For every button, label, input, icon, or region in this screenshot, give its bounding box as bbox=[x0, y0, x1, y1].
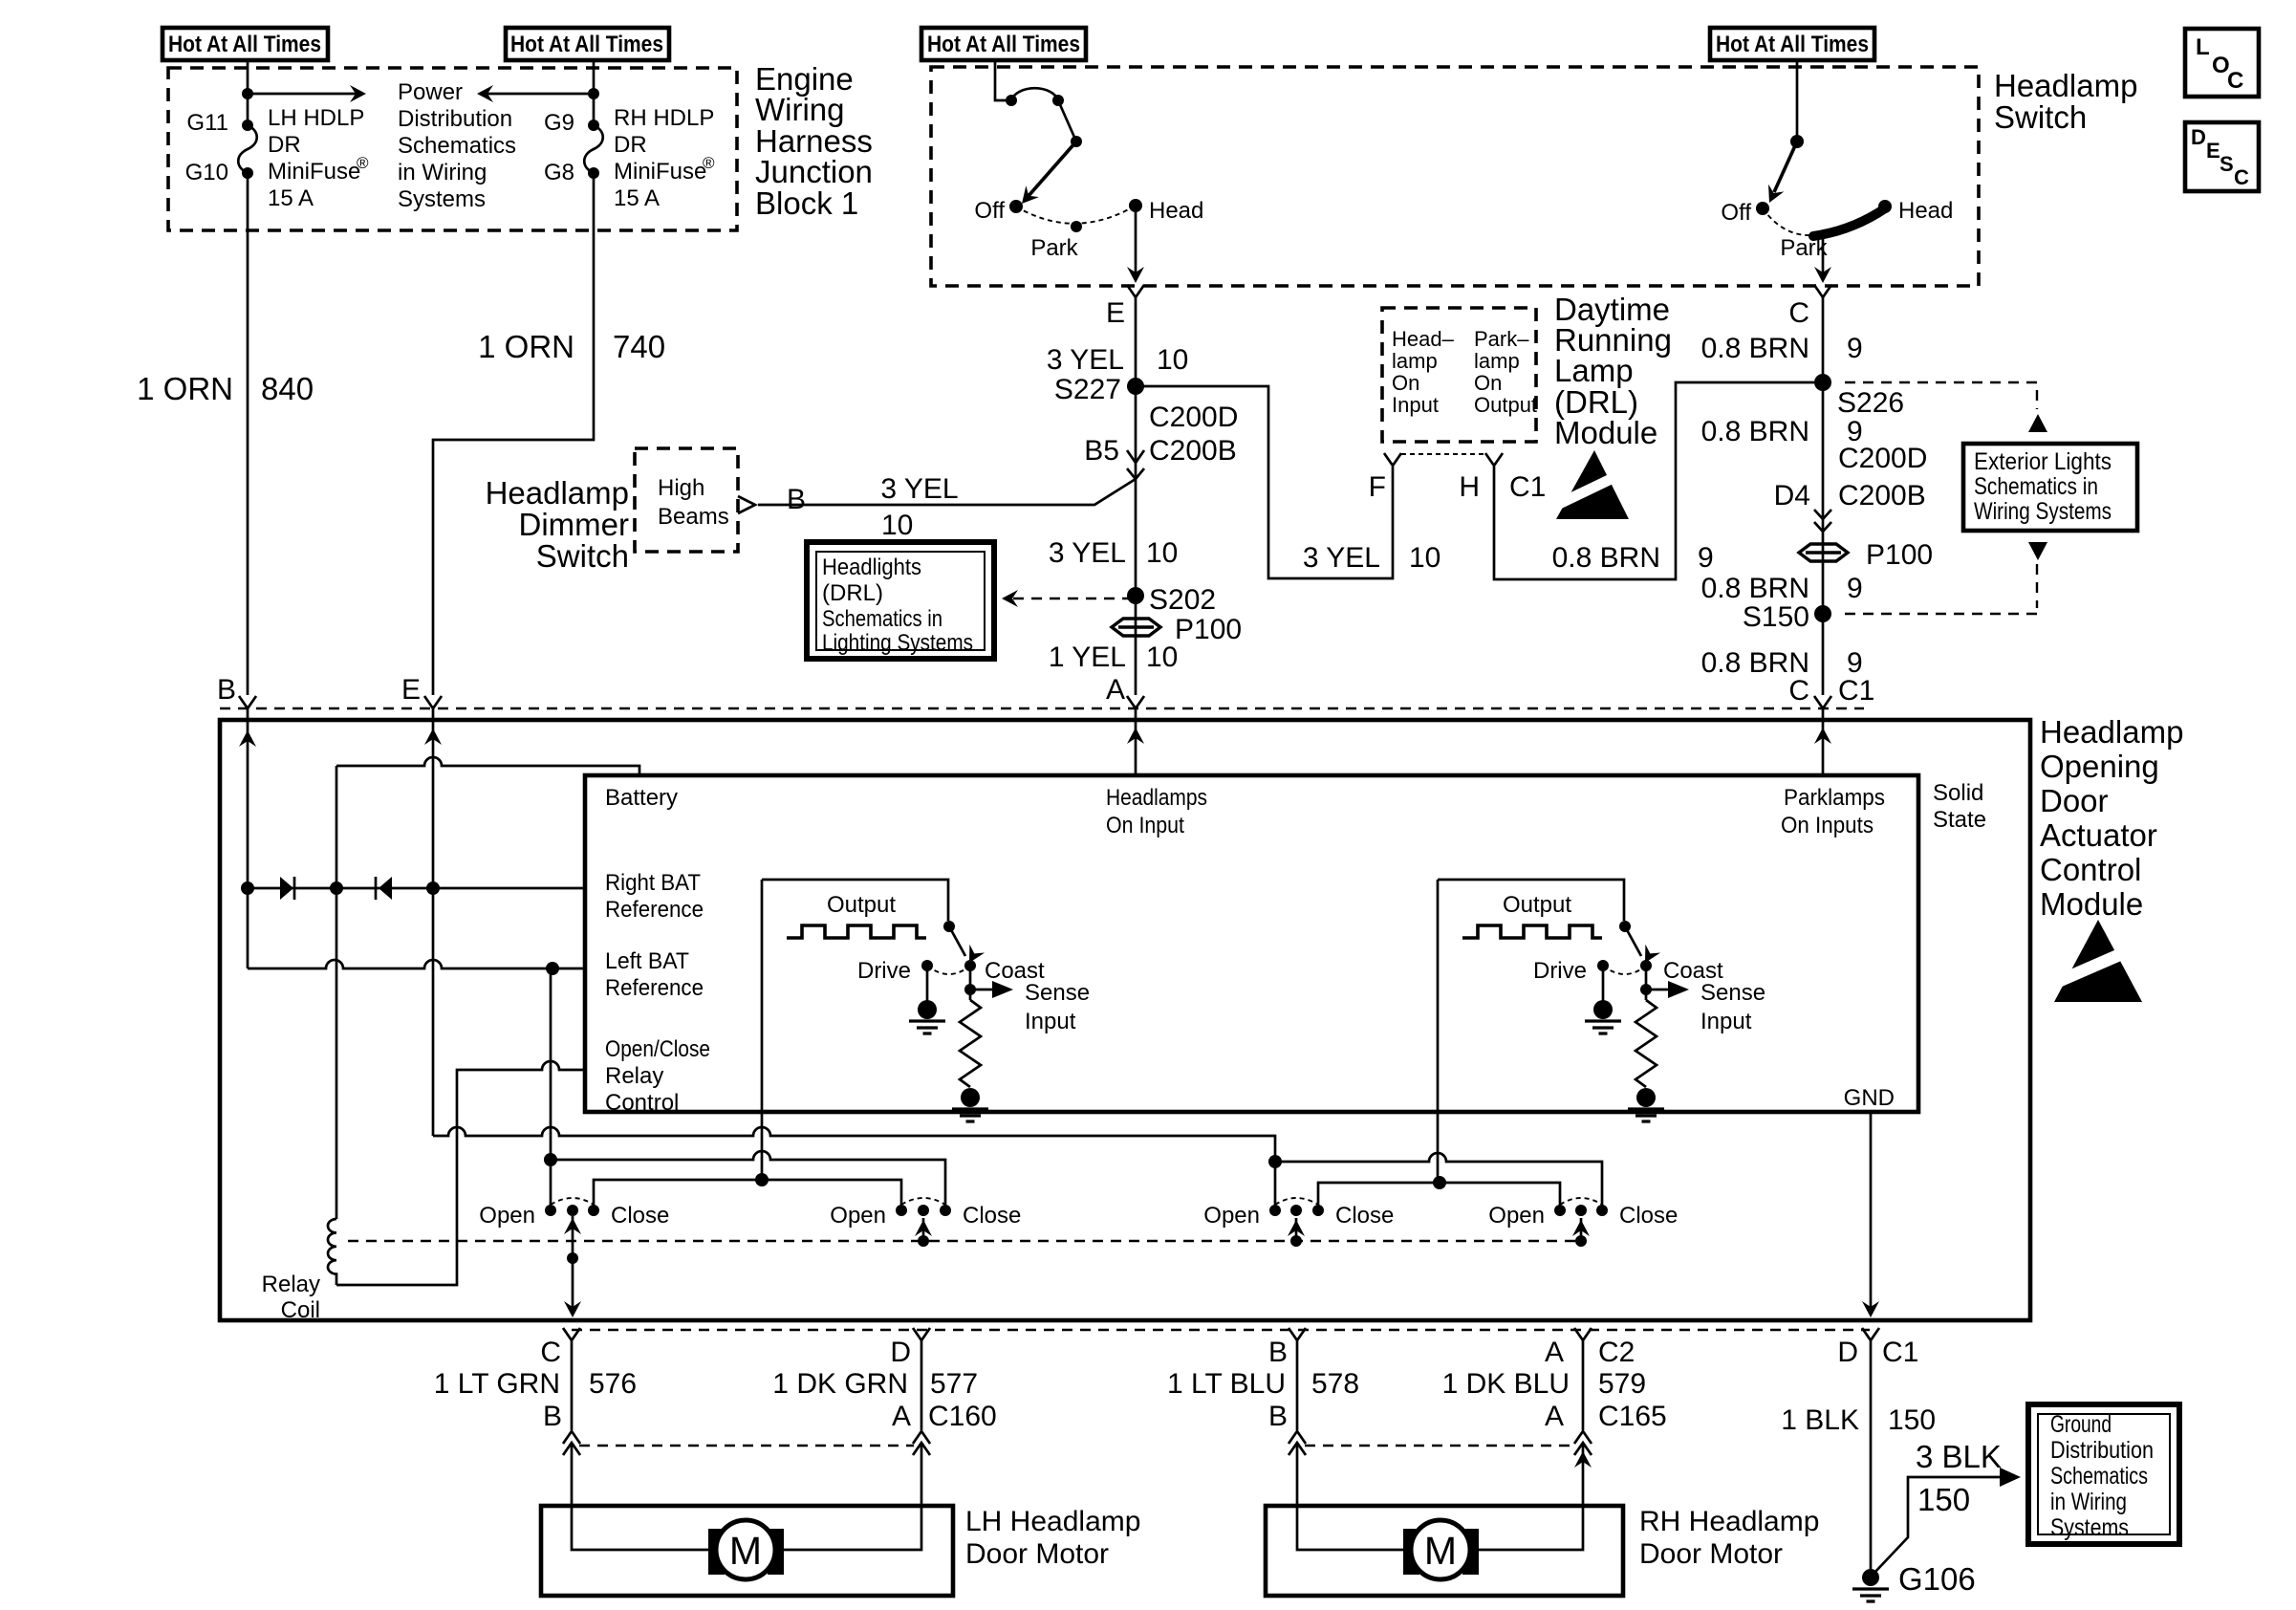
svg-text:0.8 BRN: 0.8 BRN bbox=[1701, 416, 1809, 447]
svg-text:S202: S202 bbox=[1149, 584, 1216, 616]
svg-text:S226: S226 bbox=[1837, 387, 1904, 419]
svg-text:G106: G106 bbox=[1898, 1561, 1976, 1597]
svg-text:Module: Module bbox=[2040, 886, 2143, 922]
svg-text:State: State bbox=[1933, 807, 1986, 833]
svg-text:S150: S150 bbox=[1743, 601, 1809, 633]
svg-text:Hot At All Times: Hot At All Times bbox=[927, 32, 1080, 57]
svg-text:DR: DR bbox=[268, 132, 301, 158]
svg-text:Wiring: Wiring bbox=[755, 92, 845, 127]
svg-text:Head–: Head– bbox=[1392, 327, 1455, 351]
svg-text:H: H bbox=[1459, 471, 1480, 503]
svg-text:Drive: Drive bbox=[1533, 958, 1587, 984]
svg-text:Output: Output bbox=[827, 892, 896, 918]
svg-text:Open: Open bbox=[1203, 1203, 1260, 1229]
svg-text:MiniFuse: MiniFuse bbox=[614, 159, 706, 185]
svg-text:0.8 BRN: 0.8 BRN bbox=[1701, 573, 1809, 604]
svg-text:Open: Open bbox=[479, 1203, 535, 1229]
svg-text:Open/Close: Open/Close bbox=[605, 1036, 710, 1062]
svg-text:C1: C1 bbox=[1509, 471, 1546, 503]
svg-text:High: High bbox=[658, 475, 704, 501]
svg-text:Dimmer: Dimmer bbox=[519, 507, 629, 542]
svg-text:Schematics: Schematics bbox=[2050, 1463, 2148, 1490]
svg-text:G8: G8 bbox=[544, 160, 574, 185]
svg-text:Door Motor: Door Motor bbox=[1639, 1538, 1783, 1570]
svg-text:150: 150 bbox=[1888, 1404, 1936, 1436]
svg-text:Input: Input bbox=[1392, 393, 1439, 417]
svg-text:C: C bbox=[2227, 68, 2243, 94]
svg-text:Lighting Systems: Lighting Systems bbox=[822, 630, 973, 656]
svg-text:F: F bbox=[1369, 471, 1386, 503]
svg-text:0.8 BRN: 0.8 BRN bbox=[1701, 333, 1809, 364]
svg-text:Headlamps: Headlamps bbox=[1106, 785, 1207, 811]
svg-text:C2: C2 bbox=[1598, 1337, 1635, 1368]
svg-text:Output: Output bbox=[1503, 892, 1571, 918]
svg-text:Reference: Reference bbox=[605, 897, 704, 923]
svg-text:Switch: Switch bbox=[1994, 99, 2087, 135]
svg-text:Relay: Relay bbox=[605, 1063, 663, 1089]
svg-text:576: 576 bbox=[589, 1368, 637, 1400]
svg-text:A: A bbox=[1106, 674, 1125, 706]
svg-text:Input: Input bbox=[1025, 1009, 1076, 1034]
svg-text:Input: Input bbox=[1700, 1009, 1752, 1034]
svg-text:Hot At All Times: Hot At All Times bbox=[1716, 32, 1869, 57]
svg-text:B: B bbox=[787, 484, 806, 515]
svg-text:Park: Park bbox=[1780, 235, 1828, 261]
svg-text:C200B: C200B bbox=[1838, 480, 1926, 511]
svg-text:D4: D4 bbox=[1774, 480, 1810, 511]
svg-text:1 LT GRN: 1 LT GRN bbox=[434, 1368, 560, 1400]
svg-text:Open: Open bbox=[1488, 1203, 1545, 1229]
svg-text:1 DK BLU: 1 DK BLU bbox=[1442, 1368, 1570, 1400]
svg-text:A: A bbox=[1545, 1401, 1564, 1432]
svg-text:S: S bbox=[2220, 152, 2234, 176]
svg-text:lamp: lamp bbox=[1474, 349, 1520, 373]
svg-text:RH Headlamp: RH Headlamp bbox=[1639, 1506, 1819, 1537]
svg-text:DR: DR bbox=[614, 132, 647, 158]
svg-text:Distribution: Distribution bbox=[2050, 1437, 2154, 1464]
svg-text:Hot At All Times: Hot At All Times bbox=[510, 32, 663, 57]
svg-text:1 YEL: 1 YEL bbox=[1049, 642, 1126, 673]
svg-text:M: M bbox=[729, 1529, 762, 1573]
svg-text:Control: Control bbox=[605, 1090, 679, 1116]
svg-text:Switch: Switch bbox=[536, 538, 629, 574]
svg-text:Beams: Beams bbox=[658, 504, 729, 530]
svg-text:Battery: Battery bbox=[605, 785, 678, 811]
svg-text:Junction: Junction bbox=[755, 154, 873, 189]
svg-text:Actuator: Actuator bbox=[2040, 817, 2157, 853]
svg-text:Park: Park bbox=[1030, 235, 1078, 261]
svg-text:LH Headlamp: LH Headlamp bbox=[965, 1506, 1140, 1537]
svg-text:in Wiring: in Wiring bbox=[398, 160, 487, 185]
svg-text:Park–: Park– bbox=[1474, 327, 1529, 351]
svg-text:Head: Head bbox=[1898, 198, 1953, 224]
svg-text:Close: Close bbox=[611, 1203, 669, 1229]
svg-text:Drive: Drive bbox=[857, 958, 911, 984]
svg-text:P100: P100 bbox=[1175, 614, 1242, 645]
svg-text:1 ORN: 1 ORN bbox=[137, 371, 233, 406]
svg-text:Schematics: Schematics bbox=[398, 133, 516, 159]
svg-text:150: 150 bbox=[1917, 1482, 1970, 1517]
svg-text:Off: Off bbox=[1721, 200, 1751, 226]
svg-text:15 A: 15 A bbox=[614, 185, 660, 211]
svg-text:Systems: Systems bbox=[2050, 1514, 2129, 1541]
svg-text:C200D: C200D bbox=[1838, 443, 1927, 474]
svg-text:Ground: Ground bbox=[2050, 1411, 2112, 1438]
svg-text:3 YEL: 3 YEL bbox=[1047, 344, 1124, 376]
svg-text:Headlamp: Headlamp bbox=[2040, 714, 2183, 750]
svg-text:Block 1: Block 1 bbox=[755, 185, 858, 221]
svg-text:C160: C160 bbox=[928, 1401, 997, 1432]
svg-text:15 A: 15 A bbox=[268, 185, 314, 211]
svg-text:Head: Head bbox=[1149, 198, 1203, 224]
svg-text:L: L bbox=[2196, 34, 2210, 60]
svg-text:Schematics in: Schematics in bbox=[1974, 473, 2098, 500]
svg-text:M: M bbox=[1424, 1529, 1457, 1573]
svg-text:B: B bbox=[1268, 1337, 1288, 1368]
svg-text:577: 577 bbox=[930, 1368, 978, 1400]
svg-text:Module: Module bbox=[1554, 415, 1657, 450]
svg-text:Distribution: Distribution bbox=[398, 106, 512, 132]
svg-text:A: A bbox=[1545, 1337, 1564, 1368]
svg-text:578: 578 bbox=[1311, 1368, 1359, 1400]
svg-text:10: 10 bbox=[1146, 642, 1178, 673]
svg-text:10: 10 bbox=[1409, 542, 1440, 574]
svg-text:Door Motor: Door Motor bbox=[965, 1538, 1109, 1570]
svg-text:10: 10 bbox=[1146, 537, 1178, 569]
svg-text:GND: GND bbox=[1844, 1085, 1895, 1111]
svg-text:Relay: Relay bbox=[262, 1272, 320, 1297]
svg-text:10: 10 bbox=[881, 510, 913, 541]
svg-text:Coil: Coil bbox=[281, 1297, 320, 1323]
svg-text:C: C bbox=[540, 1337, 561, 1368]
svg-text:D: D bbox=[890, 1337, 911, 1368]
svg-text:B: B bbox=[217, 674, 236, 706]
svg-text:1 ORN: 1 ORN bbox=[478, 329, 574, 364]
svg-text:B: B bbox=[543, 1401, 562, 1432]
svg-text:Headlamp: Headlamp bbox=[486, 475, 629, 511]
svg-text:D: D bbox=[2191, 125, 2206, 149]
svg-text:lamp: lamp bbox=[1392, 349, 1438, 373]
svg-text:C1: C1 bbox=[1838, 675, 1874, 707]
svg-text:9: 9 bbox=[1698, 542, 1714, 574]
svg-text:(DRL): (DRL) bbox=[822, 580, 883, 606]
svg-text:On: On bbox=[1474, 371, 1502, 395]
svg-text:10: 10 bbox=[1157, 344, 1188, 376]
svg-text:C: C bbox=[1788, 297, 1809, 329]
svg-text:G11: G11 bbox=[186, 110, 228, 136]
svg-text:C: C bbox=[1788, 675, 1809, 707]
svg-text:A: A bbox=[892, 1401, 911, 1432]
svg-text:840: 840 bbox=[261, 371, 314, 406]
svg-text:Right BAT: Right BAT bbox=[605, 870, 701, 896]
svg-text:in Wiring: in Wiring bbox=[2050, 1489, 2127, 1515]
svg-text:LH HDLP: LH HDLP bbox=[268, 105, 364, 131]
svg-text:Power: Power bbox=[398, 79, 463, 105]
svg-text:MiniFuse: MiniFuse bbox=[268, 159, 360, 185]
svg-text:G9: G9 bbox=[544, 110, 574, 136]
svg-text:1 BLK: 1 BLK bbox=[1781, 1404, 1859, 1436]
svg-text:Reference: Reference bbox=[605, 975, 704, 1001]
svg-text:C200B: C200B bbox=[1149, 435, 1237, 467]
svg-text:C: C bbox=[2234, 165, 2249, 189]
svg-text:3 BLK: 3 BLK bbox=[1916, 1439, 2002, 1474]
svg-text:E: E bbox=[1106, 297, 1125, 329]
svg-text:Open: Open bbox=[830, 1203, 886, 1229]
svg-text:P100: P100 bbox=[1866, 539, 1933, 571]
svg-text:Close: Close bbox=[963, 1203, 1021, 1229]
svg-text:On Inputs: On Inputs bbox=[1781, 813, 1874, 838]
svg-text:®: ® bbox=[703, 154, 715, 172]
svg-text:C165: C165 bbox=[1598, 1401, 1667, 1432]
svg-text:Sense: Sense bbox=[1025, 980, 1090, 1006]
svg-text:RH HDLP: RH HDLP bbox=[614, 105, 714, 131]
svg-text:On: On bbox=[1392, 371, 1419, 395]
svg-text:B: B bbox=[1268, 1401, 1288, 1432]
svg-text:Hot At All Times: Hot At All Times bbox=[168, 32, 321, 57]
svg-text:1 DK GRN: 1 DK GRN bbox=[772, 1368, 908, 1400]
svg-text:9: 9 bbox=[1847, 573, 1863, 604]
svg-text:3 YEL: 3 YEL bbox=[880, 473, 958, 505]
svg-text:Sense: Sense bbox=[1700, 980, 1765, 1006]
svg-text:E: E bbox=[2206, 139, 2220, 163]
svg-text:0.8 BRN: 0.8 BRN bbox=[1552, 542, 1660, 574]
svg-text:9: 9 bbox=[1847, 333, 1863, 364]
svg-text:579: 579 bbox=[1598, 1368, 1646, 1400]
svg-text:Systems: Systems bbox=[398, 186, 486, 212]
svg-text:Exterior Lights: Exterior Lights bbox=[1974, 448, 2112, 475]
svg-text:740: 740 bbox=[613, 329, 665, 364]
svg-text:Lamp: Lamp bbox=[1554, 353, 1634, 388]
svg-text:®: ® bbox=[357, 154, 369, 172]
svg-text:Opening: Opening bbox=[2040, 749, 2159, 784]
svg-text:On Input: On Input bbox=[1106, 813, 1184, 838]
svg-text:Schematics in: Schematics in bbox=[822, 606, 942, 632]
svg-text:D: D bbox=[1837, 1337, 1858, 1368]
svg-text:Close: Close bbox=[1335, 1203, 1394, 1229]
svg-text:C200D: C200D bbox=[1149, 402, 1238, 433]
svg-text:3 YEL: 3 YEL bbox=[1049, 537, 1126, 569]
svg-text:Left BAT: Left BAT bbox=[605, 948, 689, 974]
svg-text:G10: G10 bbox=[185, 160, 228, 185]
svg-text:Wiring Systems: Wiring Systems bbox=[1974, 498, 2112, 525]
svg-text:Door: Door bbox=[2040, 783, 2109, 818]
svg-text:S227: S227 bbox=[1054, 374, 1121, 405]
svg-text:Headlights: Headlights bbox=[822, 555, 921, 580]
svg-text:Parklamps: Parklamps bbox=[1784, 785, 1885, 811]
svg-text:Output: Output bbox=[1474, 393, 1537, 417]
svg-text:B5: B5 bbox=[1084, 435, 1119, 467]
svg-text:Solid: Solid bbox=[1933, 780, 1983, 806]
svg-text:Close: Close bbox=[1619, 1203, 1678, 1229]
svg-text:Off: Off bbox=[974, 198, 1005, 224]
svg-text:3 YEL: 3 YEL bbox=[1303, 542, 1380, 574]
svg-text:E: E bbox=[401, 674, 421, 706]
svg-text:1 LT BLU: 1 LT BLU bbox=[1167, 1368, 1286, 1400]
svg-text:C1: C1 bbox=[1882, 1337, 1918, 1368]
svg-text:Control: Control bbox=[2040, 852, 2141, 887]
svg-text:Headlamp: Headlamp bbox=[1994, 68, 2137, 103]
